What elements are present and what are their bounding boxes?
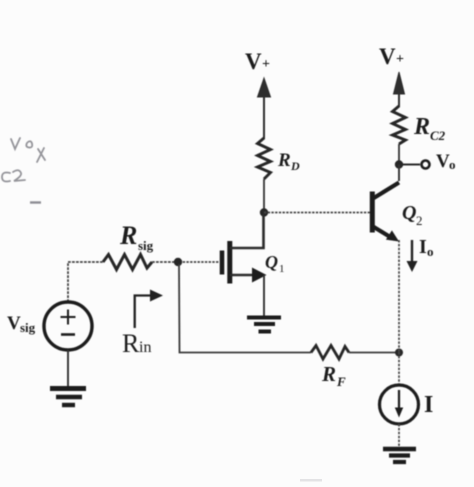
- handwritten annotation "Vo+": [11, 138, 45, 162]
- emitter stroke with arrowhead: [373, 227, 391, 238]
- source connection with arrow: [230, 274, 253, 277]
- wire node to current source: [398, 352, 400, 385]
- ground (Vsig): [50, 389, 86, 406]
- ground (Q1 source): [247, 318, 281, 332]
- wire current source to ground: [398, 424, 400, 448]
- Rin arrow: [122, 290, 163, 359]
- svg-text:I: I: [424, 392, 433, 418]
- svg-text:F: F: [336, 374, 346, 389]
- node emitter junction: [395, 349, 403, 357]
- svg-text:R: R: [122, 329, 140, 358]
- V+ arrow (right): [394, 72, 405, 107]
- gate bar: [220, 251, 225, 275]
- svg-text:V: V: [245, 49, 262, 74]
- wire RD to drain node: [263, 179, 265, 212]
- wire RC2 to collector node: [398, 144, 400, 164]
- wire Vsig to ground: [67, 350, 69, 387]
- svg-text:R: R: [119, 221, 137, 250]
- svg-text:C2: C2: [430, 128, 446, 143]
- svg-text:sig: sig: [138, 238, 154, 253]
- svg-text:D: D: [290, 159, 300, 173]
- ground (current source): [383, 449, 416, 462]
- transistor Q2 (BJT): [372, 183, 422, 242]
- power rail V+ (right) label: [379, 44, 404, 69]
- resistor RD: [258, 138, 301, 179]
- node collector/Vo: [395, 160, 403, 168]
- wire Vsig to Rsig: [68, 262, 103, 302]
- svg-text:2: 2: [416, 213, 423, 228]
- svg-text:I: I: [419, 236, 427, 258]
- wire emitter down to node: [398, 240, 400, 352]
- node input (gate): [174, 258, 182, 266]
- transistor Q1 (MOSFET): [179, 214, 285, 316]
- gate wire: [179, 261, 219, 263]
- channel bar: [227, 241, 232, 284]
- V+ arrow (left): [258, 78, 271, 139]
- svg-text:V: V: [436, 151, 450, 172]
- svg-text:o: o: [427, 244, 434, 259]
- svg-text:+: +: [396, 52, 404, 67]
- wire input node down to feedback rail: [179, 264, 311, 353]
- svg-text:Q: Q: [265, 252, 278, 272]
- base bar: [370, 192, 375, 233]
- faint scan smudge: [300, 479, 322, 482]
- resistor RF: [311, 346, 349, 390]
- svg-text:R: R: [277, 150, 291, 171]
- source Vsig: [7, 302, 92, 350]
- Io arrow: [407, 236, 434, 272]
- resistor Rsig: [103, 221, 154, 270]
- drain connection: [230, 214, 264, 248]
- collector stroke: [373, 183, 399, 199]
- terminal Vo: [403, 151, 456, 172]
- current source I: [380, 385, 434, 424]
- node drain/base junction: [260, 208, 268, 216]
- wire RF to emitter node: [349, 352, 399, 354]
- power rail V+ (left) label: [245, 49, 270, 74]
- svg-text:1: 1: [279, 263, 285, 275]
- handwritten annotation "-": [30, 201, 41, 203]
- svg-text:V: V: [7, 313, 21, 334]
- wire Vo node to collector: [398, 165, 400, 182]
- svg-text:+: +: [262, 57, 270, 72]
- resistor RC2: [393, 106, 446, 144]
- svg-text:in: in: [139, 339, 151, 356]
- svg-text:R: R: [413, 114, 430, 140]
- svg-text:R: R: [321, 362, 336, 386]
- wire base (dotted) from node to Q2 base: [264, 212, 370, 214]
- svg-text:Q: Q: [402, 202, 416, 224]
- handwritten annotation "c2": [2, 170, 25, 181]
- svg-text:o: o: [449, 157, 456, 172]
- svg-text:sig: sig: [20, 320, 36, 335]
- svg-text:V: V: [379, 44, 396, 69]
- wire Rsig to input node: [152, 261, 177, 263]
